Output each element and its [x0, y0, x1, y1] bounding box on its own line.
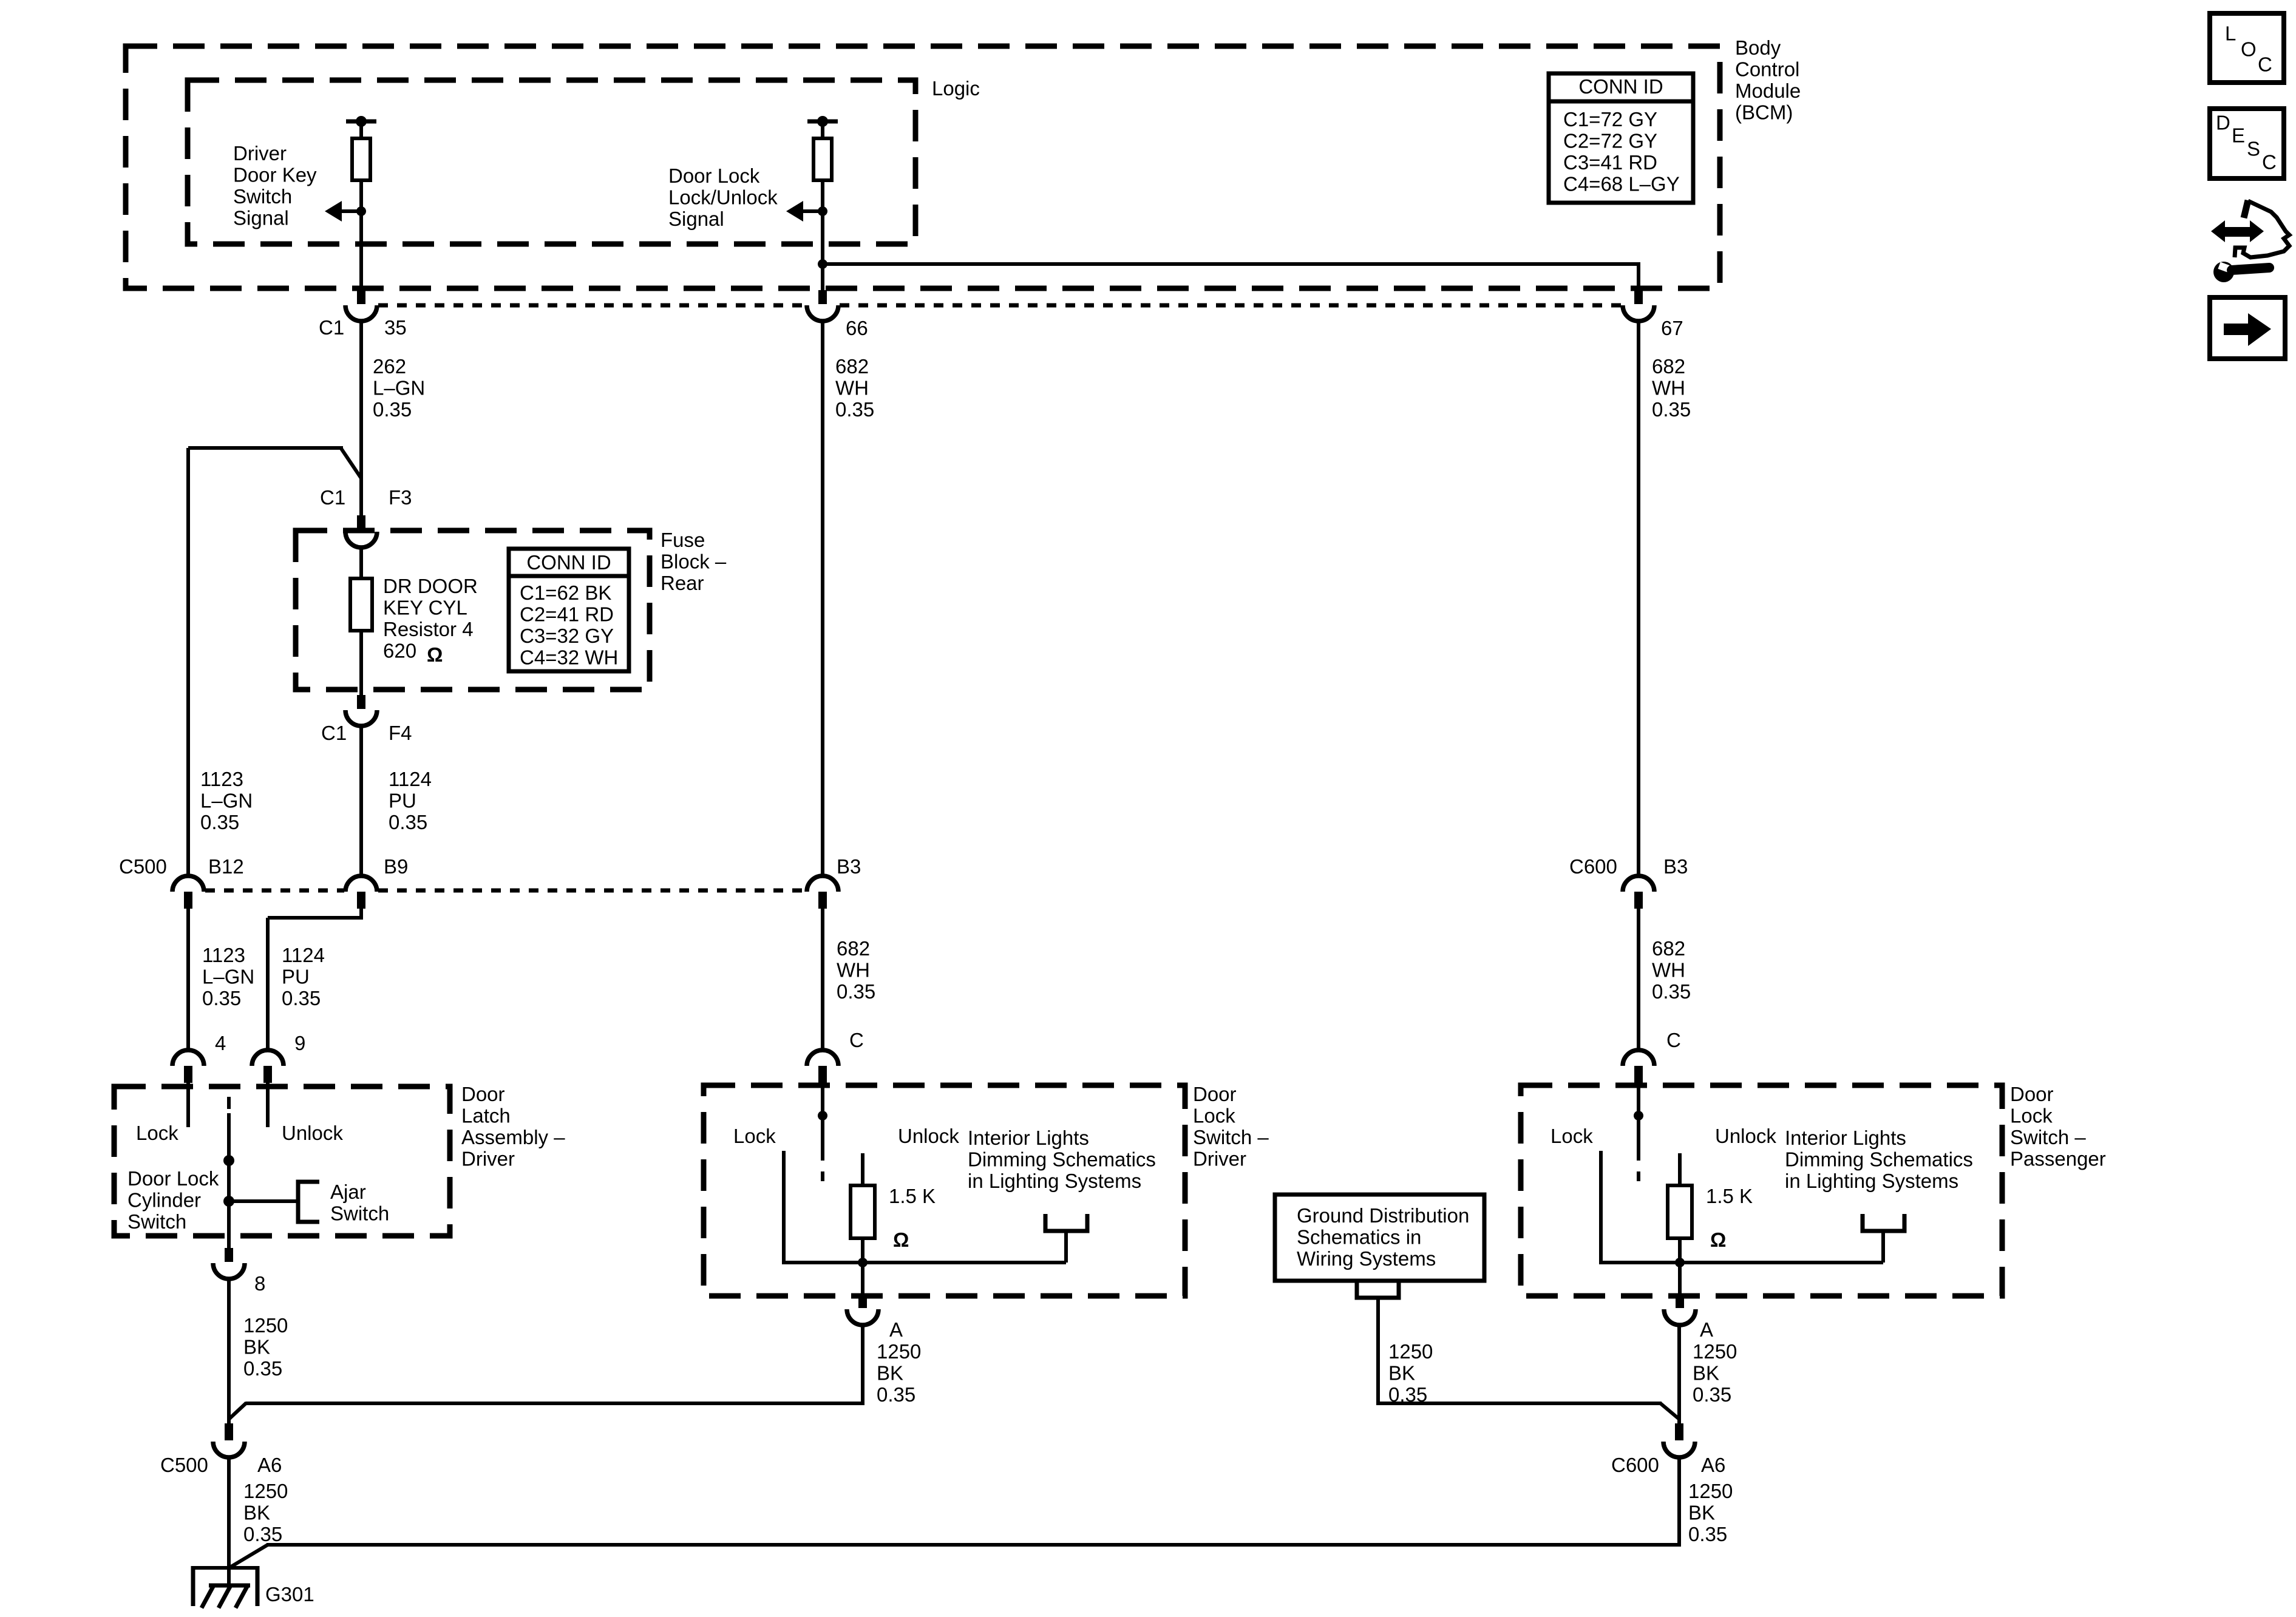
- svg-text:PU: PU: [389, 790, 416, 812]
- svg-text:BK: BK: [1688, 1502, 1715, 1524]
- wire 1123 lower: [186, 909, 190, 1051]
- resistor R3 DR DOOR KEY CYL Resistor 4: [350, 578, 372, 631]
- label Door Lock Switch - Driver: [1193, 1083, 1269, 1170]
- svg-text:Signal: Signal: [233, 207, 289, 229]
- label 1124 PU 0.35 upper: [389, 768, 432, 833]
- label Ajar Switch: [330, 1181, 389, 1225]
- svg-text:Driver: Driver: [1193, 1148, 1246, 1170]
- connector C500 pin B12: [172, 876, 204, 909]
- svg-text:Latch: Latch: [461, 1105, 511, 1127]
- label A6 driver: [257, 1454, 282, 1476]
- svg-text:Fuse: Fuse: [661, 529, 705, 551]
- svg-text:0.35: 0.35: [282, 987, 321, 1009]
- Body Control Module (BCM) dashed box: [126, 46, 1720, 288]
- label B12: [208, 855, 244, 878]
- wire 682 WH B3 to C: [821, 909, 824, 1051]
- svg-text:C1: C1: [320, 486, 345, 509]
- label Driver Door Key Switch Signal: [233, 142, 317, 229]
- svg-text:(BCM): (BCM): [1735, 101, 1793, 124]
- wire 682 WH 67 to B3 passenger: [1637, 321, 1640, 876]
- wire C into switch passenger: [1637, 1083, 1640, 1161]
- label Logic: [932, 77, 980, 100]
- svg-text:C2=41 RD: C2=41 RD: [520, 603, 614, 626]
- connector F4: [345, 695, 377, 726]
- svg-text:Dimming Schematics: Dimming Schematics: [968, 1148, 1156, 1171]
- svg-text:C600: C600: [1611, 1454, 1659, 1476]
- svg-text:Lock: Lock: [1550, 1125, 1593, 1147]
- svg-text:Unlock: Unlock: [898, 1125, 959, 1147]
- wire R3 to F4: [359, 631, 363, 695]
- svg-text:1123: 1123: [202, 944, 245, 966]
- label 4: [215, 1032, 226, 1054]
- node switch common passenger: [1634, 1111, 1643, 1120]
- svg-text:1250: 1250: [1693, 1340, 1737, 1363]
- svg-text:66: 66: [846, 317, 868, 339]
- svg-text:C: C: [2258, 53, 2272, 76]
- svg-text:BK: BK: [1693, 1362, 1719, 1385]
- label B9: [384, 855, 408, 878]
- connector F3: [345, 515, 377, 547]
- svg-text:L: L: [2225, 22, 2236, 45]
- label ohm R3: [427, 643, 443, 666]
- svg-text:B12: B12: [208, 855, 244, 878]
- wire bottom horizontal to ground: [230, 1545, 1679, 1567]
- svg-text:Schematics in: Schematics in: [1297, 1226, 1421, 1249]
- svg-text:0.35: 0.35: [202, 987, 241, 1009]
- Door Latch Assembly dashed box: [114, 1086, 450, 1236]
- svg-text:682: 682: [835, 355, 869, 378]
- label Interior Lights driver: [968, 1127, 1156, 1192]
- svg-text:1250: 1250: [1688, 1480, 1733, 1502]
- svg-text:C4=32 WH: C4=32 WH: [520, 646, 618, 669]
- resistor R4 1.5K driver: [851, 1185, 875, 1238]
- wire to ajar switch: [229, 1199, 298, 1203]
- svg-text:L–GN: L–GN: [200, 790, 253, 812]
- wire R4 to A driver: [861, 1238, 864, 1293]
- svg-text:0.35: 0.35: [877, 1383, 915, 1406]
- svg-text:F4: F4: [389, 722, 412, 744]
- label 67: [1661, 317, 1683, 339]
- svg-text:Door Lock: Door Lock: [127, 1167, 219, 1190]
- DESC icon box: [2210, 109, 2284, 178]
- label A passenger: [1700, 1318, 1713, 1341]
- label Fuse Block - Rear: [661, 529, 727, 594]
- svg-text:PU: PU: [282, 966, 310, 988]
- svg-text:C: C: [849, 1029, 864, 1051]
- svg-text:BK: BK: [1388, 1362, 1415, 1385]
- svg-text:Unlock: Unlock: [1715, 1125, 1776, 1147]
- svg-text:Lock: Lock: [1193, 1105, 1235, 1127]
- svg-text:1250: 1250: [877, 1340, 921, 1363]
- svg-text:Driver: Driver: [461, 1148, 515, 1170]
- svg-text:35: 35: [384, 316, 407, 339]
- svg-text:1123: 1123: [200, 768, 243, 790]
- wire R1 to C1 connector: [359, 180, 363, 290]
- node switch common driver: [818, 1111, 827, 1120]
- svg-text:682: 682: [837, 937, 870, 960]
- label C1 at F3: [320, 486, 345, 509]
- label 1250 BK 0.35 A driver: [877, 1340, 921, 1406]
- label 8: [254, 1272, 265, 1295]
- svg-text:Passenger: Passenger: [2010, 1148, 2106, 1170]
- svg-text:C600: C600: [1569, 855, 1617, 878]
- svg-text:0.35: 0.35: [835, 398, 874, 421]
- svg-text:WH: WH: [1652, 377, 1685, 399]
- svg-text:Control: Control: [1735, 58, 1799, 81]
- wire C into switch: [821, 1083, 824, 1161]
- svg-text:C1: C1: [321, 722, 347, 744]
- svg-text:CONN ID: CONN ID: [1578, 75, 1663, 98]
- svg-text:Door Key: Door Key: [233, 164, 317, 186]
- label A driver: [889, 1318, 903, 1341]
- interior lights bracket passenger: [1863, 1214, 1904, 1231]
- label C600 upper: [1569, 855, 1617, 878]
- svg-text:67: 67: [1661, 317, 1683, 339]
- svg-text:9: 9: [294, 1032, 305, 1054]
- wire C600 A6 down: [1677, 1457, 1681, 1547]
- svg-text:Lock/Unlock: Lock/Unlock: [668, 186, 778, 209]
- svg-text:Logic: Logic: [932, 77, 980, 100]
- label Interior Lights passenger: [1785, 1127, 1973, 1192]
- wire A-passenger horizontal: [1378, 1403, 1679, 1419]
- label Lock switch passenger: [1550, 1125, 1593, 1147]
- label 1123 L-GN 0.35 upper: [200, 768, 253, 833]
- label F3: [389, 486, 412, 509]
- svg-text:C: C: [2262, 151, 2277, 174]
- label 1.5 K passenger: [1706, 1185, 1753, 1207]
- wire A driver down: [861, 1325, 864, 1405]
- label ohm passenger: [1710, 1229, 1726, 1251]
- svg-text:C: C: [1666, 1029, 1681, 1051]
- svg-text:C3=32 GY: C3=32 GY: [520, 625, 614, 647]
- svg-text:S: S: [2247, 138, 2260, 160]
- svg-text:DR DOOR: DR DOOR: [383, 575, 478, 597]
- wire 1123 upper vertical: [186, 448, 190, 876]
- svg-text:C1: C1: [319, 316, 344, 339]
- interior lights bracket driver: [1045, 1214, 1087, 1231]
- svg-text:A6: A6: [1701, 1454, 1725, 1476]
- node latch lock contact: [223, 1155, 234, 1166]
- connector C1 pin 67: [1623, 290, 1654, 321]
- svg-text:Cylinder: Cylinder: [127, 1189, 201, 1212]
- svg-text:CONN ID: CONN ID: [526, 551, 611, 574]
- svg-text:4: 4: [215, 1032, 226, 1054]
- wire 682 WH passenger lower: [1637, 909, 1640, 1051]
- connector row dotted line: [378, 303, 1622, 308]
- wire lock stub: [186, 1083, 190, 1127]
- wire 1250 BK pin8: [227, 1279, 231, 1423]
- svg-text:BK: BK: [243, 1336, 270, 1358]
- svg-text:0.35: 0.35: [389, 811, 427, 833]
- node switch output passenger: [1675, 1258, 1685, 1267]
- svg-text:0.35: 0.35: [1652, 398, 1691, 421]
- Door Lock Switch Driver dashed box: [704, 1085, 1185, 1296]
- hand direction icon: [2211, 200, 2289, 282]
- svg-text:Interior Lights: Interior Lights: [968, 1127, 1089, 1149]
- wire lock terminal driver: [782, 1151, 786, 1264]
- label B3 passenger: [1663, 855, 1688, 878]
- connector C600 pin B3: [1623, 876, 1654, 909]
- svg-text:in Lighting Systems: in Lighting Systems: [1785, 1170, 1958, 1192]
- connector A driver: [847, 1293, 878, 1325]
- label 1123 L-GN 0.35 lower: [202, 944, 254, 1009]
- svg-text:8: 8: [254, 1272, 265, 1295]
- svg-text:G301: G301: [265, 1583, 314, 1605]
- wire branch to pin 67: [823, 262, 1639, 290]
- label G301: [265, 1583, 314, 1605]
- svg-text:Ω: Ω: [1710, 1229, 1726, 1251]
- label Lock switch driver: [733, 1125, 776, 1147]
- svg-text:WH: WH: [835, 377, 869, 399]
- svg-text:Ω: Ω: [893, 1229, 909, 1251]
- BCM CONN ID table frame: [1549, 73, 1693, 203]
- svg-text:in Lighting Systems: in Lighting Systems: [968, 1170, 1141, 1192]
- Fuse CONN ID table frame: [509, 549, 629, 671]
- label 682 WH 0.35 passenger lower: [1652, 937, 1691, 1003]
- LOC icon box: [2210, 13, 2284, 83]
- label 1250 BK 0.35 ground dist: [1388, 1340, 1433, 1406]
- Fuse Block dashed box: [296, 531, 650, 690]
- svg-text:F3: F3: [389, 486, 412, 509]
- label 262 L-GN 0.35: [373, 355, 425, 421]
- svg-text:L–GN: L–GN: [373, 377, 425, 399]
- svg-text:Lock: Lock: [733, 1125, 776, 1147]
- svg-text:C1=72 GY: C1=72 GY: [1563, 108, 1657, 131]
- svg-text:Switch: Switch: [233, 185, 292, 208]
- node door lock signal branch: [818, 259, 827, 269]
- wire bracket to horizontal driver: [1064, 1231, 1068, 1263]
- svg-text:BK: BK: [877, 1362, 903, 1385]
- signal arrow driver door key switch: [325, 201, 366, 222]
- label C600 lower: [1611, 1454, 1659, 1476]
- label Door Lock Switch - Passenger: [2010, 1083, 2106, 1170]
- svg-text:0.35: 0.35: [1688, 1523, 1727, 1545]
- label 1250 BK 0.35 pin8: [243, 1314, 288, 1380]
- svg-text:1124: 1124: [282, 944, 325, 966]
- wire unlock terminal passenger: [1678, 1153, 1682, 1185]
- DESC letters: [2216, 112, 2277, 174]
- label 1124 PU 0.35 lower: [282, 944, 325, 1009]
- svg-text:0.35: 0.35: [837, 980, 875, 1003]
- Logic dashed box: [188, 80, 915, 244]
- label DR DOOR KEY CYL Resistor 4: [383, 575, 478, 662]
- svg-text:Driver: Driver: [233, 142, 287, 164]
- svg-text:0.35: 0.35: [373, 398, 412, 421]
- BCM CONN ID header: [1578, 75, 1663, 98]
- svg-text:0.35: 0.35: [243, 1357, 282, 1380]
- svg-text:WH: WH: [837, 959, 870, 981]
- label Door Latch Assembly - Driver: [461, 1083, 565, 1170]
- svg-text:C1=62 BK: C1=62 BK: [520, 581, 611, 604]
- svg-text:Ajar: Ajar: [330, 1181, 366, 1203]
- ground distribution bracket: [1357, 1281, 1399, 1298]
- connector C500 pin A6: [213, 1423, 245, 1457]
- label 682 WH 0.35 right upper: [1652, 355, 1691, 421]
- svg-text:BK: BK: [243, 1502, 270, 1524]
- label Body Control Module (BCM): [1735, 36, 1801, 124]
- next arrow icon box: [2210, 297, 2285, 359]
- connector A passenger: [1664, 1293, 1696, 1325]
- svg-text:Lock: Lock: [136, 1122, 178, 1144]
- connector pin 8: [213, 1248, 245, 1279]
- label 682 WH 0.35 driver lower: [837, 937, 875, 1003]
- wire F3 to R3: [359, 547, 363, 578]
- label C500 upper: [119, 855, 167, 878]
- svg-text:Switch: Switch: [127, 1210, 186, 1233]
- switch actuator dash passenger: [1637, 1171, 1640, 1181]
- svg-text:C500: C500: [160, 1454, 208, 1476]
- svg-text:0.35: 0.35: [1693, 1383, 1731, 1406]
- label B3 driver: [837, 855, 861, 878]
- resistor R1 driver door key switch: [352, 138, 370, 180]
- wire R5 to A passenger: [1678, 1238, 1682, 1293]
- connector C1 pin 66: [807, 290, 838, 321]
- svg-text:1250: 1250: [243, 1480, 288, 1502]
- svg-text:Switch –: Switch –: [2010, 1126, 2086, 1148]
- switch actuator dash latch: [227, 1097, 231, 1109]
- wire switch bottom horizontal driver: [784, 1261, 1066, 1264]
- label 9: [294, 1032, 305, 1054]
- Door Lock Switch Passenger dashed box: [1521, 1085, 2002, 1296]
- svg-text:Ω: Ω: [427, 643, 443, 666]
- svg-text:O: O: [2241, 38, 2257, 61]
- label 682 WH 0.35 mid: [835, 355, 874, 421]
- svg-text:A: A: [889, 1318, 903, 1341]
- Ground Distribution box: [1275, 1195, 1484, 1281]
- svg-text:Lock: Lock: [2010, 1105, 2053, 1127]
- connector C driver: [807, 1050, 838, 1083]
- label Unlock latch: [282, 1122, 343, 1144]
- svg-text:Block –: Block –: [661, 551, 727, 573]
- node latch ajar branch: [223, 1196, 234, 1207]
- svg-text:Door: Door: [1193, 1083, 1237, 1105]
- wire T-bar to R1: [359, 121, 363, 138]
- label 1250 BK 0.35 C600 lower: [1688, 1480, 1733, 1545]
- label C500 lower: [160, 1454, 208, 1476]
- svg-text:1.5 K: 1.5 K: [889, 1185, 936, 1207]
- svg-text:Resistor 4: Resistor 4: [383, 618, 474, 640]
- svg-text:682: 682: [1652, 355, 1685, 378]
- connector C600 pin A6: [1663, 1423, 1695, 1457]
- wire A-driver horizontal: [229, 1403, 863, 1419]
- door lock T-bar: [807, 116, 838, 127]
- svg-text:1124: 1124: [389, 768, 432, 790]
- resistor R2 door lock signal: [813, 138, 832, 180]
- svg-text:Switch –: Switch –: [1193, 1126, 1269, 1148]
- connector C1 pin 35: [345, 290, 377, 321]
- node switch output driver: [858, 1258, 868, 1267]
- svg-text:Body: Body: [1735, 36, 1781, 59]
- Fuse CONN ID rows: [520, 581, 618, 669]
- wire lock terminal passenger: [1599, 1151, 1603, 1264]
- LOC letters: [2225, 22, 2272, 76]
- svg-text:1.5 K: 1.5 K: [1706, 1185, 1753, 1207]
- svg-text:B3: B3: [1663, 855, 1688, 878]
- Fuse CONN ID header: [526, 551, 611, 574]
- wire 1124 F4 to B9: [359, 726, 363, 876]
- svg-text:C2=72 GY: C2=72 GY: [1563, 130, 1657, 152]
- wire unlock stub: [266, 1083, 270, 1127]
- label C1: [319, 316, 344, 339]
- label C1 at F4: [321, 722, 347, 744]
- wire branch diagonal: [341, 449, 361, 478]
- switch actuator dash driver: [821, 1171, 824, 1181]
- svg-text:D: D: [2216, 112, 2230, 134]
- svg-text:B3: B3: [837, 855, 861, 878]
- wire unlock terminal driver: [861, 1153, 864, 1185]
- svg-text:Rear: Rear: [661, 572, 704, 594]
- connector B9: [345, 876, 377, 909]
- svg-text:Unlock: Unlock: [282, 1122, 343, 1144]
- svg-text:1250: 1250: [243, 1314, 288, 1337]
- wire bracket to horizontal passenger: [1881, 1231, 1885, 1263]
- svg-text:Wiring Systems: Wiring Systems: [1297, 1247, 1436, 1270]
- svg-text:C3=41 RD: C3=41 RD: [1563, 151, 1657, 174]
- svg-text:Door: Door: [2010, 1083, 2054, 1105]
- label Door Lock Lock/Unlock Signal: [668, 164, 778, 230]
- svg-text:B9: B9: [384, 855, 408, 878]
- label 1250 BK 0.35 A passenger: [1693, 1340, 1737, 1406]
- label 1.5 K driver: [889, 1185, 936, 1207]
- label 66: [846, 317, 868, 339]
- svg-text:620: 620: [383, 640, 416, 662]
- connector pin 9: [252, 1050, 284, 1083]
- label A6 passenger: [1701, 1454, 1725, 1476]
- svg-text:Assembly –: Assembly –: [461, 1126, 565, 1148]
- wire A passenger down: [1677, 1325, 1681, 1423]
- label Unlock switch passenger: [1715, 1125, 1776, 1147]
- BCM CONN ID rows: [1563, 108, 1680, 195]
- svg-text:KEY CYL: KEY CYL: [383, 597, 467, 619]
- svg-text:L–GN: L–GN: [202, 966, 254, 988]
- svg-text:E: E: [2232, 124, 2245, 147]
- svg-text:Interior Lights: Interior Lights: [1785, 1127, 1906, 1149]
- svg-text:682: 682: [1652, 937, 1685, 960]
- label ohm driver: [893, 1229, 909, 1251]
- svg-text:1250: 1250: [1388, 1340, 1433, 1363]
- wire latch common: [227, 1113, 231, 1248]
- svg-text:Module: Module: [1735, 80, 1801, 102]
- svg-text:262: 262: [373, 355, 406, 378]
- wire 1250 BK to ground: [227, 1457, 231, 1587]
- svg-text:Switch: Switch: [330, 1202, 389, 1225]
- svg-text:0.35: 0.35: [200, 811, 239, 833]
- svg-text:Door: Door: [461, 1083, 505, 1105]
- svg-text:0.35: 0.35: [243, 1523, 282, 1545]
- wire T-bar to R2: [821, 121, 824, 138]
- svg-text:Dimming Schematics: Dimming Schematics: [1785, 1148, 1973, 1171]
- wire R2 to node: [821, 180, 824, 290]
- resistor R5 1.5K passenger: [1668, 1185, 1692, 1238]
- svg-text:Door Lock: Door Lock: [668, 164, 760, 187]
- wire 682 WH 66 to B3: [821, 321, 824, 876]
- label C driver: [849, 1029, 864, 1051]
- label Door Lock Cylinder Switch: [127, 1167, 219, 1233]
- label 1250 BK 0.35 C500 lower: [243, 1480, 288, 1545]
- wire switch bottom horizontal passenger: [1601, 1261, 1883, 1264]
- svg-text:A6: A6: [257, 1454, 282, 1476]
- label Ground Distribution Schematics: [1297, 1204, 1469, 1270]
- driver key switch T-bar: [346, 116, 376, 127]
- ground G301: [192, 1566, 259, 1608]
- svg-text:C500: C500: [119, 855, 167, 878]
- label F4: [389, 722, 412, 744]
- label Lock latch: [136, 1122, 178, 1144]
- label 35: [384, 316, 407, 339]
- ajar switch bracket: [298, 1182, 319, 1222]
- svg-text:0.35: 0.35: [1652, 980, 1691, 1003]
- label C passenger: [1666, 1029, 1681, 1051]
